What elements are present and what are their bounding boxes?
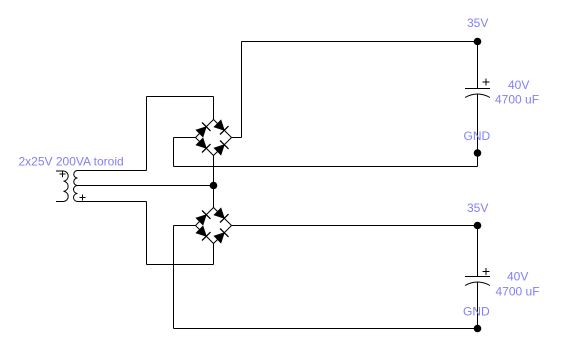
wire dropper x=146 down to bridge 2 feed — [146, 202, 148, 265]
diode BR1 D4 (bottom to right) — [214, 140, 228, 154]
transformer T1 secondary winding (center tapped) — [74, 171, 78, 202]
node GND 2 junction dot — [474, 325, 482, 333]
wire bridge 2 bottom feed horizontal — [147, 264, 214, 266]
wire BR1 plus stub to right — [232, 137, 242, 139]
wire ground rail 2 — [174, 328, 478, 330]
wire primary top lead — [56, 170, 64, 172]
node 35V bottom junction dot — [474, 222, 482, 230]
wire C2 negative lead down to GND node 2 — [477, 282, 479, 329]
diode BR2 D8 (bottom to right) — [214, 228, 228, 242]
wire BR1 minus stub to left — [174, 137, 196, 139]
diode BR2 D6 (top to right) — [214, 208, 228, 222]
svg-text:GND: GND — [464, 129, 491, 143]
wire up to bridge 2 bottom corner — [213, 244, 215, 265]
svg-text:35V: 35V — [467, 201, 488, 215]
svg-text:2x25V 200VA toroid: 2x25V 200VA toroid — [19, 155, 124, 169]
wire down to bridge 1 top corner — [213, 97, 215, 120]
wire secondary center tap to node — [78, 185, 214, 187]
wire primary bottom lead — [56, 201, 64, 203]
wire 35V rail 1 — [242, 41, 478, 43]
bridge rectifier BR2 diamond outline — [196, 208, 232, 244]
svg-text:40V: 40V — [507, 270, 528, 284]
capacitor C2 negative curved plate — [465, 282, 490, 286]
svg-text:4700 uF: 4700 uF — [496, 285, 540, 299]
node 35V top junction dot — [474, 38, 482, 46]
bridge rectifier BR1 diamond outline — [196, 120, 232, 156]
wire ground rail 1 — [174, 166, 478, 168]
wire secondary top terminal to riser — [78, 170, 147, 172]
wire bridge 1 top feed horizontal — [147, 96, 214, 98]
primary polarity + mark — [60, 171, 66, 177]
transformer T1 primary winding — [64, 171, 69, 202]
wire C1 negative lead down to GND node 1 — [477, 94, 479, 167]
node GND 1 junction dot — [474, 149, 482, 157]
diode BR1 D1 (left to top) — [196, 122, 210, 136]
capacitor C1 plus mark — [483, 79, 490, 86]
wire secondary bottom terminal — [78, 201, 147, 203]
wire BR1 bottom corner to center tap — [213, 156, 215, 186]
wire BR2 minus stub to left — [174, 225, 196, 227]
wire 35V node 2 down to capacitor C2 — [477, 226, 479, 277]
wire BR2 plus output to 35V node 2 — [232, 225, 478, 227]
svg-text:40V: 40V — [508, 78, 529, 92]
svg-text:4700 uF: 4700 uF — [495, 93, 539, 107]
wire drop to ground rail 2 — [173, 226, 175, 329]
wire riser x=241 to 35V rail 1 — [241, 42, 243, 138]
capacitor C1 positive plate — [465, 88, 490, 90]
secondary polarity + mark — [80, 195, 86, 201]
svg-text:35V: 35V — [467, 16, 488, 30]
capacitor C2 positive plate — [465, 276, 490, 278]
node center tap junction dot — [210, 182, 218, 190]
wire drop to ground rail 1 — [173, 138, 175, 167]
capacitor C1 negative curved plate — [465, 94, 490, 98]
svg-text:GND: GND — [463, 305, 490, 319]
wire center tap down to bridge 2 top corner — [213, 186, 215, 208]
diode BR2 D5 (left to top) — [196, 210, 210, 224]
diode BR1 D3 (left to bottom) — [196, 138, 210, 152]
diode BR1 D2 (top to right) — [214, 120, 228, 134]
diode BR2 D7 (left to bottom) — [196, 226, 210, 240]
wire 35V node down to capacitor C1 — [477, 42, 479, 89]
wire riser x=146 up to bridge 1 feed — [146, 97, 148, 171]
capacitor C2 plus mark — [483, 268, 490, 275]
